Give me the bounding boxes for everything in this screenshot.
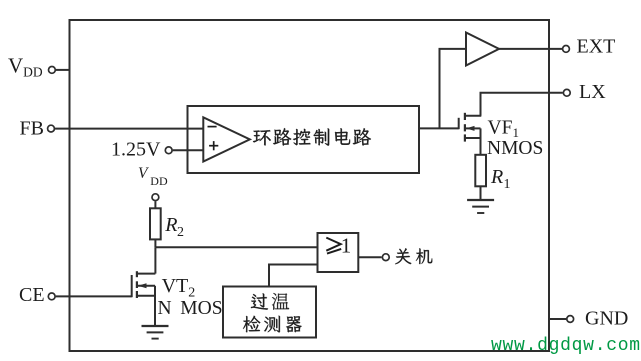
pin EXT terminal (563, 46, 570, 53)
resistor R1 (475, 155, 486, 187)
wire VF1 drain to LX (481, 93, 563, 116)
svg-text:VF1: VF1 (488, 117, 519, 140)
svg-text:R: R (490, 166, 503, 188)
wire box to GND (549, 318, 566, 320)
svg-text:DD: DD (150, 174, 168, 188)
wire control box output to VF1 gate (419, 127, 459, 129)
transistor VT2 source stub (137, 295, 155, 297)
svg-text:MOS: MOS (180, 298, 222, 319)
buffer amplifier U2 (466, 33, 499, 66)
wire VT2 source to ground (154, 286, 156, 326)
transistor VF1 channel dashes (464, 113, 466, 142)
op-amp A1 (203, 117, 250, 161)
node shutdown terminal (382, 254, 389, 261)
op-amp plus sign (209, 141, 218, 150)
svg-text:VT2: VT2 (162, 275, 196, 301)
ground for VT2 (142, 326, 169, 339)
wire over-temp detector to OR gate input 2 (269, 265, 318, 287)
label shutdown text (395, 248, 432, 264)
pin VDD terminal (49, 67, 56, 74)
wire VDD pin to box (56, 69, 70, 71)
label over-temp line2 text (243, 316, 302, 333)
svg-text:R: R (164, 214, 177, 236)
IC outline box (70, 20, 550, 351)
svg-text:1: 1 (504, 177, 511, 192)
svg-text:1: 1 (341, 234, 352, 258)
resistor R2 (150, 208, 161, 239)
transistor VT2 gate bar (131, 275, 133, 297)
op-amp minus sign (208, 126, 217, 128)
wire 1.25V to op-amp non-inverting input (173, 149, 204, 151)
wire OR gate output (358, 256, 381, 258)
wire node A to OR gate input 1 (155, 246, 317, 248)
node 1.25V terminal (165, 147, 172, 154)
svg-text:V: V (138, 165, 149, 182)
svg-text:GND: GND (585, 308, 628, 330)
transistor VT2 body arrow (138, 285, 155, 287)
over-temperature detector box U4 (223, 287, 316, 338)
svg-text:1.25V: 1.25V (111, 139, 161, 161)
wire node A to VT2 drain (154, 247, 156, 273)
pin CE terminal (48, 293, 55, 300)
label over-temp line1 text (251, 293, 289, 310)
transistor VF1 drain stub (465, 115, 481, 117)
wire CE to VT2 gate (56, 295, 132, 297)
svg-text:N: N (158, 298, 172, 319)
svg-text:LX: LX (579, 81, 606, 103)
transistor VT2 channel dashes (136, 271, 138, 298)
wire junction to buffer input (440, 49, 467, 128)
internal VDD terminal (152, 194, 159, 201)
svg-text:VDD: VDD (8, 54, 43, 80)
transistor VF1 gate bar (458, 118, 460, 129)
OR gate U3 box (318, 233, 359, 272)
ground for R1 (467, 200, 494, 213)
loop control circuit box U1 (188, 106, 420, 173)
wire buffer output to EXT (499, 48, 563, 50)
wire R1 to ground (480, 186, 482, 200)
transistor VF1 body arrow (466, 127, 481, 129)
svg-text:EXT: EXT (577, 36, 616, 58)
svg-text:FB: FB (20, 118, 44, 140)
svg-text:CE: CE (19, 284, 45, 306)
wire VDD terminal to R2 (154, 201, 156, 208)
pin GND terminal (567, 316, 574, 323)
pin FB terminal (48, 125, 55, 132)
pin LX terminal (563, 89, 570, 96)
transistor VF1 source stub and wire to R1 (465, 138, 481, 155)
wire R2 to node A (154, 239, 156, 247)
label loop-control-circuit text (253, 128, 371, 146)
svg-text:www.dgdqw.com: www.dgdqw.com (491, 336, 641, 356)
svg-text:2: 2 (177, 225, 184, 240)
transistor VT2 drain stub (137, 273, 156, 275)
wire FB to op-amp inverting input (55, 128, 203, 130)
svg-text:NMOS: NMOS (487, 138, 543, 159)
OR gate >=1 symbol (326, 238, 341, 254)
